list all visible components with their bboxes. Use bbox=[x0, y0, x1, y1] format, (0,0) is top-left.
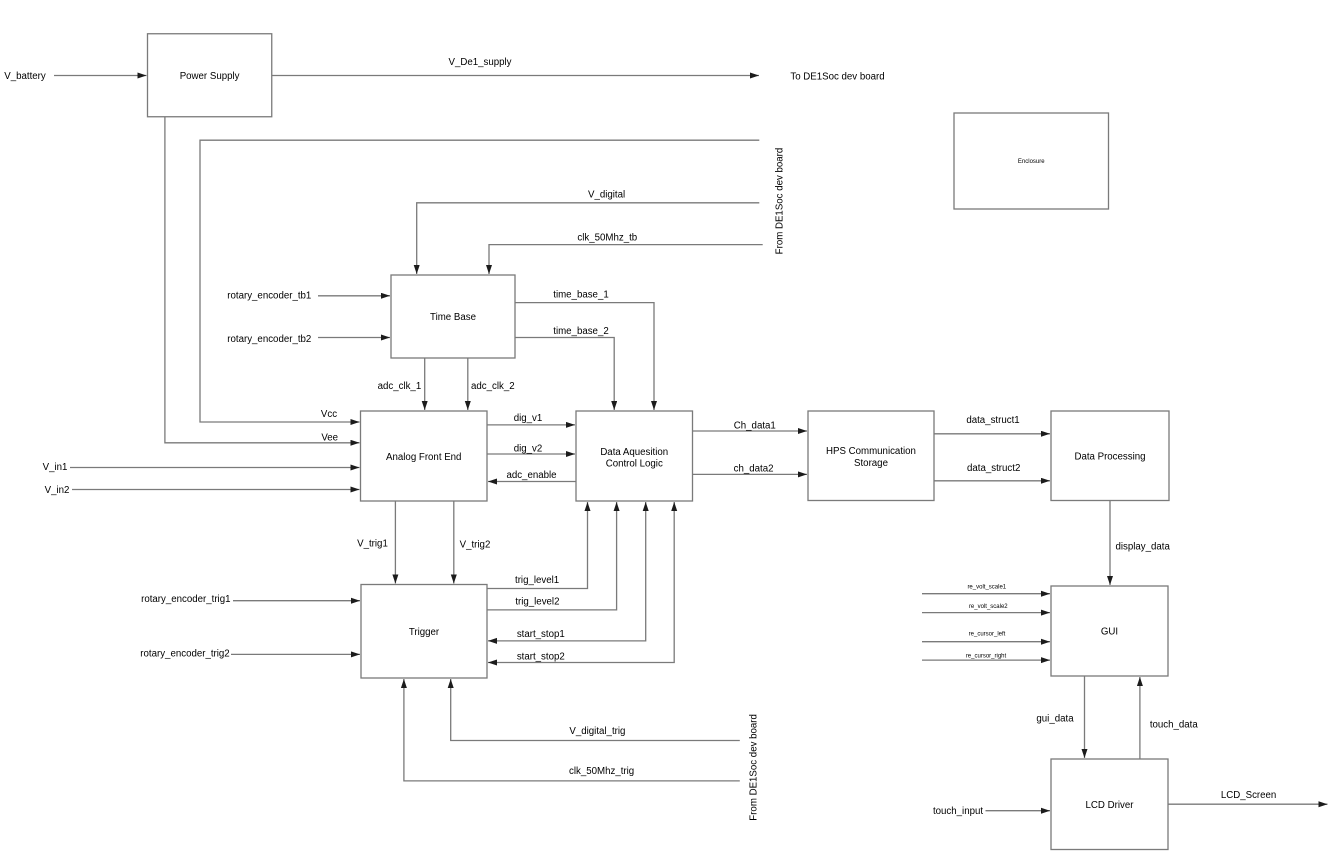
svg-text:adc_clk_2: adc_clk_2 bbox=[471, 381, 515, 392]
svg-text:data_struct1: data_struct1 bbox=[966, 415, 1019, 426]
svg-text:dig_v2: dig_v2 bbox=[514, 444, 543, 455]
svg-text:HPS Communication: HPS Communication bbox=[826, 446, 916, 457]
svg-text:Vee: Vee bbox=[321, 433, 338, 444]
svg-text:From DE1Soc dev board: From DE1Soc dev board bbox=[775, 148, 786, 255]
svg-text:re_cursor_left: re_cursor_left bbox=[969, 632, 1006, 638]
svg-text:Data Aquesition: Data Aquesition bbox=[600, 447, 668, 458]
svg-text:Vcc: Vcc bbox=[321, 409, 337, 420]
svg-text:GUI: GUI bbox=[1101, 627, 1118, 638]
svg-text:Power Supply: Power Supply bbox=[180, 71, 240, 82]
svg-text:data_struct2: data_struct2 bbox=[967, 463, 1020, 474]
svg-text:LCD_Screen: LCD_Screen bbox=[1221, 790, 1276, 801]
svg-text:clk_50Mhz_trig: clk_50Mhz_trig bbox=[569, 766, 634, 777]
svg-text:Data Processing: Data Processing bbox=[1074, 452, 1145, 463]
svg-text:To DE1Soc dev board: To DE1Soc dev board bbox=[790, 72, 884, 83]
svg-text:rotary_encoder_tb2: rotary_encoder_tb2 bbox=[227, 334, 311, 345]
svg-text:clk_50Mhz_tb: clk_50Mhz_tb bbox=[577, 233, 637, 244]
svg-text:display_data: display_data bbox=[1115, 541, 1170, 552]
svg-text:time_base_2: time_base_2 bbox=[553, 326, 608, 337]
svg-text:rotary_encoder_trig1: rotary_encoder_trig1 bbox=[141, 594, 230, 605]
svg-text:touch_input: touch_input bbox=[933, 806, 983, 817]
svg-text:Control Logic: Control Logic bbox=[606, 458, 663, 469]
svg-text:From DE1Soc dev board: From DE1Soc dev board bbox=[749, 714, 760, 821]
svg-text:V_De1_supply: V_De1_supply bbox=[448, 57, 511, 68]
svg-text:trig_level2: trig_level2 bbox=[515, 597, 559, 608]
svg-text:LCD Driver: LCD Driver bbox=[1086, 800, 1135, 811]
svg-text:re_volt_scale2: re_volt_scale2 bbox=[969, 604, 1008, 610]
svg-text:adc_clk_1: adc_clk_1 bbox=[378, 381, 422, 392]
svg-text:Ch_data1: Ch_data1 bbox=[734, 421, 776, 432]
svg-text:V_trig2: V_trig2 bbox=[460, 540, 491, 551]
svg-text:gui_data: gui_data bbox=[1036, 714, 1074, 725]
svg-text:rotary_encoder_trig2: rotary_encoder_trig2 bbox=[140, 649, 229, 660]
svg-text:trig_level1: trig_level1 bbox=[515, 575, 559, 586]
svg-text:Enclosure: Enclosure bbox=[1018, 159, 1045, 165]
svg-text:V_digital: V_digital bbox=[588, 190, 625, 201]
svg-text:rotary_encoder_tb1: rotary_encoder_tb1 bbox=[227, 291, 311, 302]
svg-text:Time Base: Time Base bbox=[430, 312, 476, 323]
svg-text:dig_v1: dig_v1 bbox=[514, 413, 543, 424]
svg-text:Analog Front End: Analog Front End bbox=[386, 452, 461, 463]
svg-text:start_stop1: start_stop1 bbox=[517, 629, 565, 640]
svg-text:V_in1: V_in1 bbox=[43, 462, 68, 473]
svg-text:Trigger: Trigger bbox=[409, 627, 440, 638]
svg-text:V_battery: V_battery bbox=[4, 71, 46, 82]
svg-text:V_trig1: V_trig1 bbox=[357, 539, 388, 550]
svg-text:ch_data2: ch_data2 bbox=[734, 464, 774, 475]
svg-text:adc_enable: adc_enable bbox=[506, 470, 556, 481]
svg-text:Storage: Storage bbox=[854, 458, 888, 469]
svg-text:V_in2: V_in2 bbox=[45, 485, 70, 496]
svg-text:re_volt_scale1: re_volt_scale1 bbox=[967, 584, 1006, 590]
svg-text:V_digital_trig: V_digital_trig bbox=[569, 726, 625, 737]
svg-text:time_base_1: time_base_1 bbox=[553, 289, 608, 300]
svg-text:start_stop2: start_stop2 bbox=[517, 652, 565, 663]
svg-text:touch_data: touch_data bbox=[1150, 719, 1199, 730]
svg-text:re_cursor_right: re_cursor_right bbox=[966, 653, 1007, 659]
